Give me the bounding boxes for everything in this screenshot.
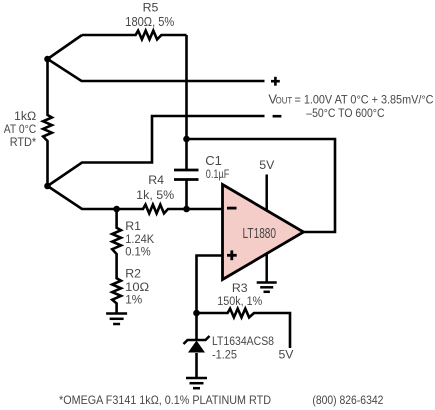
svg-text:–50°C TO 600°C: –50°C TO 600°C [306, 106, 384, 120]
svg-text:*OMEGA F3141 1kΩ, 0.1% PLATINU: *OMEGA F3141 1kΩ, 0.1% PLATINUM RTD [59, 393, 271, 407]
svg-text:5V: 5V [278, 348, 294, 362]
svg-text:1kΩ: 1kΩ [14, 109, 36, 123]
svg-text:AT 0°C: AT 0°C [4, 122, 37, 136]
svg-text:LT1880: LT1880 [243, 226, 277, 242]
svg-text:0.1%: 0.1% [125, 244, 151, 258]
svg-text:1k, 5%: 1k, 5% [136, 188, 174, 202]
svg-text:RTD*: RTD* [10, 135, 37, 149]
svg-text:R4: R4 [148, 173, 164, 187]
svg-text:C1: C1 [205, 153, 222, 168]
svg-text:R5: R5 [143, 1, 159, 15]
svg-text:R3: R3 [232, 281, 248, 295]
svg-text:180Ω, 5%: 180Ω, 5% [125, 15, 174, 29]
svg-text:1%: 1% [125, 292, 142, 306]
svg-text:0.1µF: 0.1µF [206, 167, 230, 181]
svg-text:= 1.00V AT 0°C + 3.85mV/°C: = 1.00V AT 0°C + 3.85mV/°C [295, 93, 434, 107]
svg-text:LT1634ACS8: LT1634ACS8 [212, 334, 274, 348]
svg-text:150k, 1%: 150k, 1% [217, 294, 262, 308]
svg-text:R2: R2 [125, 267, 141, 281]
svg-text:5V: 5V [259, 158, 275, 172]
svg-text:(800) 826-6342: (800) 826-6342 [312, 393, 383, 407]
svg-text:-1.25: -1.25 [212, 348, 237, 362]
svg-text:OUT: OUT [276, 96, 293, 106]
svg-text:R1: R1 [125, 219, 141, 233]
